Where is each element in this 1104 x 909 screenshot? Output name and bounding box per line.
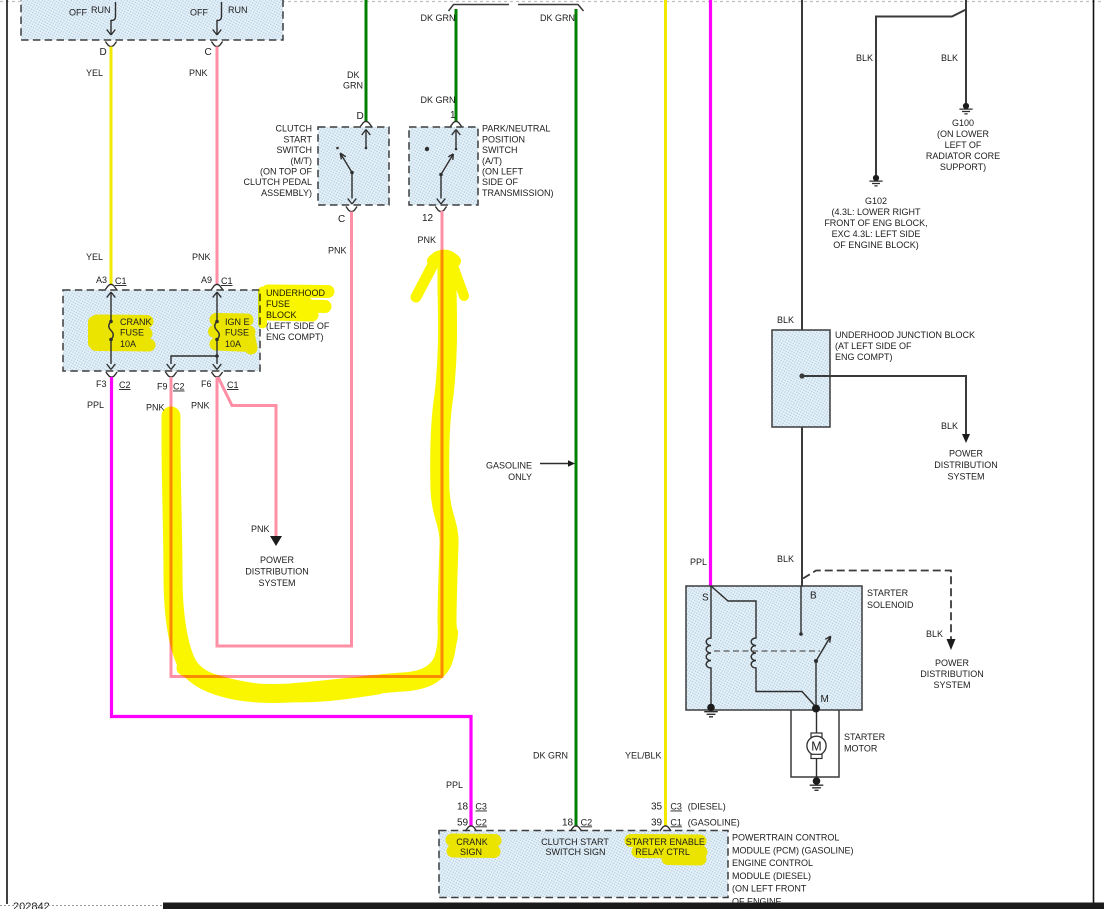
- park/neutral blade (closed to 1): [439, 173, 443, 177]
- highlighter blob underhood fuse block: [268, 291, 328, 315]
- svg-text:PPL: PPL: [87, 400, 104, 410]
- svg-text:(4.3L: LOWER RIGHT: (4.3L: LOWER RIGHT: [831, 207, 921, 217]
- svg-text:MODULE (DIESEL): MODULE (DIESEL): [732, 871, 811, 881]
- svg-text:LEFT OF: LEFT OF: [945, 140, 982, 150]
- svg-text:(ON LOWER: (ON LOWER: [937, 129, 990, 139]
- park/neutral position switch box: [409, 127, 478, 205]
- svg-text:D: D: [100, 47, 107, 58]
- svg-text:BLK: BLK: [941, 53, 958, 63]
- svg-text:IGN E: IGN E: [225, 317, 250, 327]
- svg-text:STARTER ENABLE: STARTER ENABLE: [626, 837, 705, 847]
- svg-text:UNDERHOOD JUNCTION BLOCK: UNDERHOOD JUNCTION BLOCK: [835, 330, 975, 340]
- underhood fuse block label: [266, 288, 330, 342]
- starter motor frame: [791, 710, 839, 777]
- svg-text:OFF: OFF: [190, 8, 208, 18]
- svg-text:POWER: POWER: [935, 658, 970, 668]
- bottom dotted rule: [0, 905, 163, 907]
- clutch switch blade (open): [350, 171, 354, 175]
- wire YEL/BLK to PCM: [664, 0, 667, 826]
- svg-text:BLK: BLK: [926, 629, 943, 639]
- plunger linkage (dash-dot): [714, 650, 820, 652]
- svg-text:S: S: [702, 593, 709, 604]
- svg-text:BLK: BLK: [777, 554, 794, 564]
- svg-text:(A/T): (A/T): [482, 156, 502, 166]
- clutch start switch label: [243, 124, 312, 198]
- wire BLK junction block to power distribution: [802, 376, 966, 434]
- powertrain control module box: [439, 831, 728, 898]
- pin C connector: [211, 42, 222, 47]
- solenoid switch blade: [814, 659, 818, 663]
- ignition switch pole 1 wiper: [111, 2, 116, 34]
- wire PNK inner loop: F6 to clutch switch C: [217, 212, 352, 647]
- svg-text:SIDE OF: SIDE OF: [482, 177, 519, 187]
- clutch switch left contact: [336, 147, 339, 150]
- starter solenoid box: [686, 586, 862, 710]
- ignition switch box (top left, cut off): [21, 0, 283, 40]
- svg-text:PNK: PNK: [192, 252, 211, 262]
- svg-text:M: M: [811, 739, 821, 753]
- svg-text:35: 35: [651, 802, 663, 813]
- svg-text:(ON LEFT: (ON LEFT: [482, 167, 524, 177]
- svg-text:F9: F9: [157, 382, 168, 392]
- svg-text:(ON TOP OF: (ON TOP OF: [260, 167, 313, 177]
- park/neutral switch label: [482, 124, 554, 198]
- svg-text:POSITION: POSITION: [482, 134, 525, 144]
- pin A3 C1: [105, 284, 116, 289]
- svg-text:RUN: RUN: [91, 5, 111, 15]
- svg-text:POWERTRAIN CONTROL: POWERTRAIN CONTROL: [732, 833, 839, 843]
- svg-text:POWER: POWER: [949, 449, 984, 459]
- svg-text:PNK: PNK: [189, 68, 208, 78]
- svg-text:PNK: PNK: [146, 403, 165, 413]
- solenoid contact from B: [800, 586, 802, 633]
- svg-text:PNK: PNK: [251, 524, 270, 534]
- svg-text:SWITCH SIGN: SWITCH SIGN: [546, 847, 606, 857]
- svg-text:PPL: PPL: [690, 557, 707, 567]
- svg-text:YEL/BLK: YEL/BLK: [625, 751, 662, 761]
- continuation bracket over DK GRN wires: [449, 5, 584, 12]
- svg-text:SOLENOID: SOLENOID: [867, 600, 914, 610]
- pin D connector: [105, 42, 116, 47]
- svg-text:CLUTCH: CLUTCH: [275, 124, 312, 134]
- svg-text:G100: G100: [952, 118, 974, 128]
- svg-text:RUN: RUN: [228, 5, 248, 15]
- svg-text:12: 12: [422, 213, 434, 224]
- svg-text:DK GRN: DK GRN: [540, 13, 575, 23]
- wire PPL crank sign: F3 to PCM 59 C2: [112, 377, 472, 826]
- clutch switch pin C: [346, 207, 357, 212]
- wire DK GRN to clutch switch D: [365, 0, 368, 121]
- svg-text:DK GRN: DK GRN: [421, 95, 456, 105]
- svg-text:A9: A9: [201, 275, 212, 285]
- svg-text:FRONT OF ENG BLOCK,: FRONT OF ENG BLOCK,: [824, 218, 927, 228]
- svg-text:START: START: [283, 134, 312, 144]
- wire DK GRN to park/neutral pin 1: [455, 9, 458, 121]
- svg-text:FUSE: FUSE: [120, 328, 144, 338]
- starter motor ground: [810, 777, 824, 790]
- ground G102: [869, 175, 882, 186]
- svg-text:PNK: PNK: [328, 246, 347, 256]
- wire PNK branch F6 to power distribution: [218, 377, 276, 536]
- wire PNK outer loop: F9 to park/neutral pin 12: [171, 211, 442, 677]
- svg-text:59: 59: [457, 817, 469, 828]
- solenoid hold-in coil branch: [711, 586, 816, 707]
- svg-text:BLK: BLK: [856, 53, 873, 63]
- svg-text:ENG COMPT): ENG COMPT): [266, 332, 324, 342]
- svg-text:SYSTEM: SYSTEM: [258, 578, 295, 588]
- svg-text:(AT LEFT SIDE OF: (AT LEFT SIDE OF: [835, 341, 912, 351]
- starter motor brushes and armature: [811, 733, 822, 737]
- terminal M: [812, 705, 820, 713]
- svg-text:18: 18: [457, 802, 469, 813]
- svg-text:DISTRIBUTION: DISTRIBUTION: [920, 669, 984, 679]
- junction node: [799, 373, 804, 378]
- svg-text:ONLY: ONLY: [508, 472, 532, 482]
- pin A9 C1: [211, 284, 222, 289]
- solenoid pull-in coil: [706, 586, 711, 705]
- ground G100: [959, 103, 972, 114]
- park/neutral output to 12: [440, 175, 442, 199]
- svg-text:C1: C1: [115, 276, 127, 286]
- svg-text:OF ENGINE BLOCK): OF ENGINE BLOCK): [833, 240, 919, 250]
- svg-text:C3: C3: [670, 802, 682, 812]
- clutch start switch box: [318, 127, 389, 205]
- svg-text:DK GRN: DK GRN: [533, 751, 568, 761]
- svg-text:(DIESEL): (DIESEL): [688, 802, 726, 812]
- svg-text:(GASOLINE): (GASOLINE): [688, 817, 740, 827]
- pin F6 C1: [211, 372, 222, 377]
- svg-text:CLUTCH PEDAL: CLUTCH PEDAL: [243, 177, 312, 187]
- pin F3 C2: [106, 372, 117, 377]
- ignition switch pole 2 wiper: [217, 2, 222, 34]
- svg-text:C2: C2: [475, 817, 487, 827]
- wire YEL ignition D to fuse A3: [110, 47, 113, 286]
- wire DK GRN to PCM pin 18 C2: [575, 9, 578, 826]
- svg-text:SIGN: SIGN: [460, 847, 482, 857]
- svg-text:GASOLINE: GASOLINE: [486, 461, 532, 471]
- park/neutral pin 12: [435, 207, 446, 212]
- svg-text:SWITCH: SWITCH: [277, 145, 313, 155]
- svg-text:10A: 10A: [120, 339, 136, 349]
- crank fuse F1: [107, 292, 116, 298]
- svg-text:YEL: YEL: [86, 68, 103, 78]
- svg-text:SUPPORT): SUPPORT): [940, 162, 986, 172]
- highlighter blob ign e fuse: [215, 320, 252, 349]
- svg-text:TRANSMISSION): TRANSMISSION): [482, 188, 554, 198]
- svg-text:M: M: [821, 694, 829, 705]
- svg-text:D: D: [357, 111, 364, 122]
- svg-text:DISTRIBUTION: DISTRIBUTION: [245, 567, 309, 577]
- svg-text:CRANK: CRANK: [456, 837, 488, 847]
- top continuation dashed line: [0, 1, 1104, 3]
- svg-text:SWITCH: SWITCH: [482, 145, 518, 155]
- PCM pin 18 C2 clutch start switch sign: [570, 826, 581, 831]
- park/neutral pin 1: [450, 121, 461, 126]
- svg-text:F3: F3: [96, 379, 107, 389]
- highlighter blob crank sign: [452, 840, 701, 859]
- svg-text:(M/T): (M/T): [291, 156, 313, 166]
- svg-text:POWER: POWER: [260, 555, 295, 565]
- svg-text:(ON LEFT FRONT: (ON LEFT FRONT: [732, 884, 807, 894]
- svg-text:SYSTEM: SYSTEM: [947, 472, 984, 482]
- highlighter arrowhead at pin 12: [416, 257, 437, 297]
- park/neutral left contact: [425, 147, 429, 151]
- svg-text:ASSEMBLY): ASSEMBLY): [261, 188, 312, 198]
- arrow to power distribution (pink branch): [270, 536, 282, 546]
- highlighter big traced path F9 to pin 12: [171, 266, 449, 694]
- svg-text:PARK/NEUTRAL: PARK/NEUTRAL: [482, 124, 550, 134]
- svg-text:C: C: [338, 214, 345, 225]
- PCM label: [732, 833, 854, 909]
- svg-text:18: 18: [562, 817, 574, 828]
- svg-text:OF ENGINE: OF ENGINE: [732, 897, 782, 907]
- svg-text:A3: A3: [96, 275, 107, 285]
- starter motor wire from M: [816, 712, 818, 733]
- svg-text:BLK: BLK: [941, 421, 958, 431]
- underhood fuse block box: [63, 290, 260, 371]
- svg-text:PNK: PNK: [418, 235, 437, 245]
- black wire top right to grounds: [965, 0, 967, 103]
- svg-text:CLUTCH START: CLUTCH START: [541, 837, 609, 847]
- svg-text:(LEFT SIDE OF: (LEFT SIDE OF: [266, 321, 330, 331]
- PCM pin 35 C3 / 39 C1 starter enable relay ctrl: [660, 826, 671, 831]
- left page border: [6, 0, 8, 904]
- svg-text:STARTER: STARTER: [844, 732, 886, 742]
- highlighter blob crank fuse: [94, 320, 251, 349]
- svg-text:PNK: PNK: [191, 401, 210, 411]
- junction to F9: [215, 354, 219, 358]
- underhood junction block: [772, 330, 830, 427]
- svg-text:MODULE (PCM) (GASOLINE): MODULE (PCM) (GASOLINE): [732, 845, 854, 855]
- svg-text:C: C: [205, 47, 212, 58]
- svg-text:F6: F6: [201, 379, 212, 389]
- ign e fuse F2: [213, 292, 222, 298]
- clutch switch output to C: [351, 173, 353, 199]
- svg-text:ENG COMPT): ENG COMPT): [835, 352, 893, 362]
- svg-text:FUSE: FUSE: [225, 328, 249, 338]
- svg-text:39: 39: [651, 817, 663, 828]
- clutch switch contact from D: [365, 130, 367, 147]
- svg-text:1: 1: [450, 110, 456, 121]
- svg-text:OFF: OFF: [69, 8, 87, 18]
- solenoid coil ground: [704, 704, 718, 717]
- svg-text:MOTOR: MOTOR: [844, 744, 878, 754]
- svg-text:DK: DK: [347, 70, 360, 80]
- svg-text:ENGINE CONTROL: ENGINE CONTROL: [732, 858, 813, 868]
- svg-text:CRANK: CRANK: [120, 317, 152, 327]
- park/neutral contact from 1: [455, 130, 457, 148]
- svg-text:C1: C1: [221, 276, 233, 286]
- svg-text:10A: 10A: [225, 339, 241, 349]
- wire PPL to starter solenoid S: [709, 0, 712, 586]
- bottom dark bar: [163, 903, 1104, 909]
- svg-text:C2: C2: [173, 382, 185, 392]
- svg-text:DISTRIBUTION: DISTRIBUTION: [934, 460, 998, 470]
- svg-text:BLK: BLK: [777, 315, 794, 325]
- svg-text:C2: C2: [581, 817, 593, 827]
- pin F9 C2: [165, 372, 176, 377]
- svg-text:GRN: GRN: [343, 81, 363, 91]
- svg-text:YEL: YEL: [86, 252, 103, 262]
- svg-text:C3: C3: [475, 802, 487, 812]
- highlighter blob starter enable relay ctrl: [631, 841, 701, 860]
- svg-text:STARTER: STARTER: [867, 588, 909, 598]
- svg-text:C1: C1: [670, 817, 682, 827]
- PCM pin 18 C3 / 59 C2 crank sign: [465, 826, 476, 831]
- svg-text:EXC 4.3L: LEFT SIDE: EXC 4.3L: LEFT SIDE: [832, 229, 921, 239]
- wire PNK ignition C to fuse A9: [216, 47, 219, 286]
- right page border: [1093, 0, 1095, 903]
- black wire from top to solenoid B: [801, 0, 803, 586]
- svg-text:RADIATOR CORE: RADIATOR CORE: [926, 151, 1000, 161]
- clutch switch pin D: [360, 121, 371, 126]
- svg-text:SYSTEM: SYSTEM: [933, 680, 970, 690]
- svg-text:RELAY CTRL: RELAY CTRL: [635, 847, 690, 857]
- svg-text:DK GRN: DK GRN: [421, 13, 456, 23]
- svg-text:PPL: PPL: [446, 780, 463, 790]
- svg-text:C1: C1: [227, 380, 239, 390]
- svg-text:G102: G102: [865, 196, 887, 206]
- svg-text:B: B: [810, 591, 817, 602]
- dashed BLK branch to power distribution: [803, 571, 951, 640]
- highlighter annotations layer: [171, 256, 464, 695]
- svg-text:C2: C2: [119, 380, 131, 390]
